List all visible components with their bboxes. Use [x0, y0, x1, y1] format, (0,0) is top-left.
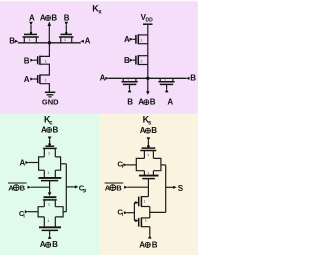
panel Kx background [0, 0, 198, 114]
transmission gate TG1 lower device (gate A⊕B inverted) [39, 170, 62, 181]
node A⊕B (bottom input of Ks) [139, 227, 158, 250]
node A⊕B (output, top middle) [40, 13, 58, 26]
output Cp [66, 184, 86, 195]
wire gate lead TG (Ks) [147, 141, 149, 148]
junction dot [48, 41, 51, 44]
wire output stem up from junction [48, 26, 50, 43]
transistor Q1 (pass transistor, gate A) [23, 34, 39, 42]
wire T1 source to S rail and T2 drain [150, 207, 166, 218]
svg-text:A: A [140, 126, 146, 135]
svg-text:B: B [190, 74, 196, 83]
svg-text:B: B [52, 240, 58, 249]
svg-text:A: A [167, 98, 173, 107]
input B (left) [9, 37, 18, 46]
transmission gate TG lower device (Ks) [139, 170, 159, 178]
wire gate lead of Q7 + input B label (bottom) [127, 84, 133, 106]
svg-text:DD: DD [146, 18, 154, 24]
transmission gate TG2 lower device [39, 217, 61, 231]
transmission gate TG1 upper device (gate A⊕B) [43, 146, 57, 157]
svg-text:A: A [124, 35, 130, 44]
wire TG loop (Ks) [136, 158, 161, 170]
input Ci (Kc) [19, 209, 38, 220]
title Ks [143, 115, 152, 127]
wire TG2 loop (terminals) [38, 207, 63, 217]
svg-text:B: B [20, 183, 26, 192]
wire TG1 loop (terminals) [39, 157, 61, 170]
input B (gate of Q6) [124, 56, 133, 65]
transistor Q4 (nmos, gate A) [33, 74, 47, 84]
svg-text:A: A [24, 75, 30, 84]
wire output rail (Ks) [165, 165, 167, 213]
title Kx [92, 4, 102, 16]
title Kc [44, 115, 53, 127]
svg-text:B: B [124, 56, 130, 65]
svg-text:B: B [64, 13, 70, 22]
node A⊕B (top input of Ks) [140, 126, 158, 141]
panel Ks background [99, 114, 198, 255]
svg-text:A: A [138, 98, 144, 107]
ground GND [42, 92, 59, 106]
input Ci (TG input, Ks) [117, 159, 136, 170]
transistor T2 (Ks, gate Ci) [134, 217, 149, 227]
transistor Q7 (pass transistor below rail, gate B) [122, 77, 138, 84]
input A (Kc) [20, 158, 39, 167]
svg-text:B: B [51, 13, 57, 22]
wire gate lead of Q1 [30, 25, 32, 34]
junction dot [146, 77, 149, 80]
node VDD [141, 13, 154, 24]
svg-text:A: A [29, 13, 35, 22]
svg-text:B: B [9, 37, 15, 46]
input B (gate of Q3) [24, 56, 34, 65]
input A⊕B-bar (Ks) [105, 183, 149, 192]
top edge light strip [0, 0, 198, 1]
panel Kc background [0, 114, 99, 255]
input A (gate of Q5) [124, 35, 133, 44]
input A (gate of Q4) [24, 75, 34, 84]
svg-text:B: B [151, 126, 157, 135]
svg-text:A: A [41, 125, 47, 134]
transistor Q5 (gate A) [133, 34, 148, 44]
wire gate bus (Ks) [133, 203, 135, 221]
svg-text:A: A [40, 240, 46, 249]
wire gate link TG1-TG2 [49, 181, 51, 193]
input A⊕B-bar (Kc middle) [8, 183, 50, 192]
transistor Q3 (nmos, gate B) [33, 56, 47, 65]
wire output rail (Kc) [65, 164, 67, 212]
input A (left of lower rail) [100, 74, 109, 83]
transistor Q2 (pass transistor, gate B) [59, 34, 74, 42]
node label B (gate of Q2) [64, 13, 70, 25]
svg-text:B: B [152, 240, 158, 249]
svg-text:B: B [150, 98, 156, 107]
svg-text:A: A [20, 158, 26, 167]
wire TG2 to output rail [63, 211, 66, 213]
wire VDD rail down [147, 24, 149, 78]
wire horizontal source-drain rail (left circuit) [18, 42, 81, 44]
node A⊕B (bottom input of Kc) [40, 230, 58, 249]
wire TG to output rail (Ks) [161, 164, 166, 166]
svg-text:A: A [139, 240, 145, 249]
input B (right of lower rail) [186, 74, 196, 83]
svg-text:p: p [83, 188, 86, 194]
wire rail down to Q3 [40, 43, 49, 57]
transmission gate TG upper device (Ks) [140, 148, 156, 158]
svg-text:A: A [40, 13, 46, 22]
transmission gate TG2 upper device [43, 197, 57, 207]
wire center vertical (gate lead + T1 drain link) [147, 179, 149, 197]
wire gate arrow into TG2 [48, 192, 52, 196]
svg-text:B: B [24, 56, 30, 65]
transistor T1 (Ks, gate Ci) [134, 196, 149, 207]
transistor Q6 (gate B) [133, 55, 148, 65]
wire Q3 source to Q4 drain [40, 64, 49, 75]
input A (right) [80, 37, 90, 46]
wire gate lead TG1 [49, 140, 51, 146]
wire Q4 source to ground [40, 84, 49, 92]
svg-text:GND: GND [42, 98, 59, 107]
svg-text:B: B [53, 125, 59, 134]
node A⊕B (top input of Kc) [41, 125, 59, 140]
node A⊕B (output, bottom middle) [138, 78, 156, 106]
svg-text:A: A [100, 74, 106, 83]
wire gate lead of Q2 [65, 25, 67, 34]
svg-text:A: A [85, 37, 91, 46]
node label A (gate of Q1) [29, 13, 35, 25]
svg-text:S: S [178, 184, 184, 193]
svg-text:B: B [116, 183, 122, 192]
wire gate lead of Q8 + input A label (bottom) [165, 84, 174, 106]
wire TG1 to output rail [61, 163, 67, 165]
svg-text:B: B [127, 98, 133, 107]
output S [166, 184, 184, 193]
wire horizontal source-drain rail (right circuit) [108, 77, 186, 79]
input Ci (lower, Ks) [117, 207, 134, 218]
transistor Q8 (pass transistor below rail, gate A) [158, 77, 174, 84]
